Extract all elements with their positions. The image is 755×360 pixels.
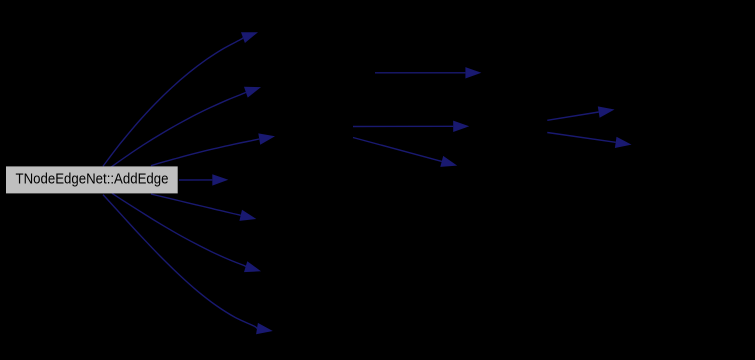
wire edgeA second-level call (horizontal) bbox=[375, 72, 465, 74]
arrowhead edgeC bbox=[440, 156, 457, 167]
wire edgeC second-level call (diagonal) bbox=[353, 138, 442, 162]
wire edge5 AddEdge to callee 5 (curved down) bbox=[151, 194, 241, 215]
arrowhead edge1 bbox=[241, 32, 258, 43]
node TNodeEdgeNet::AddEdge bbox=[6, 166, 178, 193]
wire edge7 AddEdge to callee 7 (curved down) bbox=[103, 195, 257, 329]
arrowhead edgeA bbox=[465, 67, 481, 78]
arrowhead edge2 bbox=[244, 87, 261, 98]
arrowhead edgeD bbox=[598, 106, 615, 117]
svg-text:TNodeEdgeNet::AddEdge: TNodeEdgeNet::AddEdge bbox=[16, 171, 169, 188]
wire edge3 AddEdge to callee 3 (curved up) bbox=[151, 139, 259, 166]
arrowhead edge5 bbox=[239, 210, 256, 221]
wire edgeB second-level call (horizontal) bbox=[353, 125, 453, 127]
arrowhead edge4 bbox=[212, 174, 228, 185]
wire edge4 AddEdge to callee 4 (horizontal) bbox=[179, 179, 212, 181]
arrowhead edgeB bbox=[453, 121, 469, 132]
wire edge1 AddEdge to callee 1 (curved up) bbox=[103, 38, 243, 167]
arrowhead edge3 bbox=[258, 133, 275, 144]
wire edge2 AddEdge to callee 2 (curved up) bbox=[111, 92, 246, 167]
wire edgeD third-level call (up-right) bbox=[547, 112, 598, 120]
arrowhead edge6 bbox=[244, 261, 261, 272]
arrowhead edgeE bbox=[615, 137, 632, 148]
arrowhead edge7 bbox=[256, 323, 273, 334]
wire edge6 AddEdge to callee 6 (curved down) bbox=[112, 193, 246, 266]
wire edgeE third-level call (down-right) bbox=[547, 133, 615, 143]
